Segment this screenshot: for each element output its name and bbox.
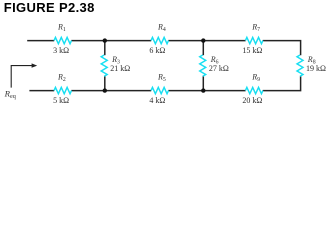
svg-text:FIGURE P2.38: FIGURE P2.38 xyxy=(4,0,95,15)
wire top rail segment 3 xyxy=(168,40,245,42)
Req arrow xyxy=(11,63,37,87)
resistor R2 5 kOhm xyxy=(53,72,71,104)
svg-text:R1: R1 xyxy=(57,22,66,33)
junction node top of R6 xyxy=(201,38,205,42)
svg-text:Req: Req xyxy=(4,88,16,100)
svg-text:20 kΩ: 20 kΩ xyxy=(242,96,262,105)
resistor R6 27 kOhm xyxy=(200,55,229,76)
wire top rail segment 4 with right corner down xyxy=(263,41,301,56)
svg-text:21 kΩ: 21 kΩ xyxy=(110,64,130,73)
wire R6 top stub xyxy=(202,41,204,56)
wire bottom rail segment 2 xyxy=(71,90,151,92)
svg-text:4 kΩ: 4 kΩ xyxy=(149,96,165,105)
wire top rail segment 1 xyxy=(27,40,54,42)
wire bottom rail segment 1 xyxy=(29,90,54,92)
svg-text:R9: R9 xyxy=(251,72,260,83)
svg-text:15 kΩ: 15 kΩ xyxy=(242,46,262,55)
resistor R5 4 kOhm xyxy=(149,72,168,104)
svg-text:3 kΩ: 3 kΩ xyxy=(53,46,69,55)
svg-text:R4: R4 xyxy=(157,22,166,33)
resistor R7 15 kOhm xyxy=(242,22,263,54)
wire R6 bottom stub xyxy=(202,76,204,91)
junction node top of R3 xyxy=(103,38,107,42)
svg-text:19 kΩ: 19 kΩ xyxy=(306,64,326,73)
svg-text:6 kΩ: 6 kΩ xyxy=(149,46,165,55)
svg-text:27 kΩ: 27 kΩ xyxy=(209,64,229,73)
resistor R1 3 kOhm xyxy=(53,22,71,54)
wire top rail segment 2 xyxy=(71,40,151,42)
resistor R3 21 kOhm xyxy=(101,55,130,76)
resistor R8 19 kOhm xyxy=(297,55,326,76)
svg-text:R7: R7 xyxy=(251,22,260,33)
svg-text:R2: R2 xyxy=(57,72,66,83)
resistor R4 6 kOhm xyxy=(149,22,168,54)
svg-text:R5: R5 xyxy=(157,72,166,83)
wire bottom rail segment 3 xyxy=(168,90,245,92)
wire bottom rail segment 4 with right corner up xyxy=(263,76,301,91)
svg-text:5 kΩ: 5 kΩ xyxy=(53,96,69,105)
wire R3 top stub xyxy=(104,41,106,56)
junction node bottom of R3 xyxy=(103,88,107,92)
wire R3 bottom stub xyxy=(104,76,106,91)
junction node bottom of R6 xyxy=(201,88,205,92)
resistor R9 20 kOhm xyxy=(242,72,263,104)
